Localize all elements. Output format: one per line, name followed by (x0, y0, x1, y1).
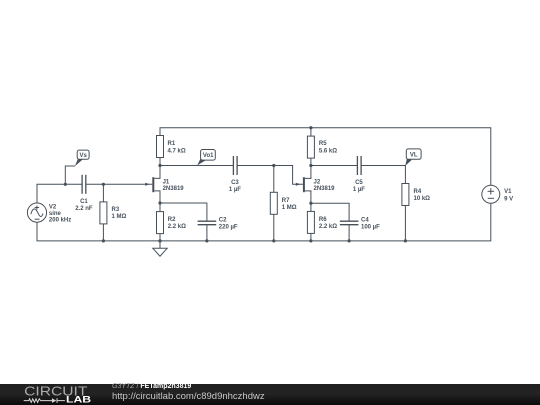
svg-text:C4: C4 (361, 218, 369, 224)
wire R3 top (102, 184, 104, 202)
capacitor C1 (82, 175, 86, 194)
node R3 top junction (102, 183, 105, 186)
bottom rail (37, 203, 491, 241)
wire R2 bottom (159, 234, 161, 241)
svg-text:2.2 kΩ: 2.2 kΩ (319, 224, 337, 230)
wire C2 bottom (206, 225, 208, 241)
svg-text:10 kΩ: 10 kΩ (414, 196, 431, 202)
svg-text:1 MΩ: 1 MΩ (282, 205, 297, 211)
svg-text:sine: sine (49, 211, 62, 217)
wire source2 to C4 (311, 203, 349, 221)
svg-text:Vs: Vs (80, 153, 88, 159)
svg-text:R5: R5 (319, 141, 327, 147)
labels (49, 141, 513, 231)
svg-text:200 kHz: 200 kHz (49, 217, 71, 223)
source V2 (27, 203, 46, 222)
wire R6 bottom (310, 233, 312, 241)
node R3 bottom rail junction (102, 239, 105, 242)
footer bar (0, 384, 540, 405)
resistor R1 (157, 136, 164, 158)
wire V2 top lead (37, 184, 82, 203)
svg-text:V1: V1 (504, 189, 512, 195)
svg-text:2.2 nF: 2.2 nF (75, 206, 93, 212)
svg-text:R2: R2 (168, 217, 176, 223)
node R2/ground rail junction (158, 239, 161, 242)
top rail (160, 128, 491, 186)
wire R5 bottom to J2 drain (310, 158, 312, 178)
resistor R2 (157, 212, 164, 234)
transistor J2 (296, 177, 311, 192)
CircuitLab logo (0, 384, 110, 405)
flag VL (405, 149, 421, 166)
svg-text:R6: R6 (319, 217, 327, 223)
wire drain2 node to C5 (311, 165, 358, 167)
capacitor C5 (357, 156, 361, 175)
wire drain1 node to C3 (160, 165, 233, 167)
node Vo1 junction (J1 drain) (158, 164, 161, 167)
resistor R5 (307, 136, 314, 158)
wire R7 top (273, 166, 275, 193)
svg-text:1 MΩ: 1 MΩ (112, 214, 127, 220)
svg-text:Vo1: Vo1 (203, 153, 214, 159)
svg-text:2N3819: 2N3819 (314, 186, 336, 192)
transistor J1 (145, 177, 160, 192)
node Vs junction (V2/C1) (64, 183, 67, 186)
wire C4 bottom (348, 225, 350, 241)
wire J2 source to R6 (310, 191, 312, 211)
svg-text:2N3819: 2N3819 (163, 186, 185, 192)
wire C3 to J2 gate (237, 166, 303, 185)
svg-text:J2: J2 (314, 179, 321, 185)
wire R4 bottom (404, 206, 406, 241)
svg-text:R3: R3 (112, 207, 120, 213)
svg-text:V2: V2 (49, 204, 57, 210)
wire R1 bottom to J1 drain (159, 158, 161, 179)
svg-text:1 µF: 1 µF (353, 187, 365, 193)
svg-text:C5: C5 (355, 180, 363, 186)
resistor R6 (307, 211, 314, 233)
node R7 top junction (272, 164, 275, 167)
wire R5 top (310, 128, 312, 136)
capacitor C3 (233, 156, 237, 175)
flag Vs (75, 150, 89, 166)
wire R7 bottom (273, 214, 275, 241)
capacitor C2 (198, 221, 217, 225)
node C2 bottom rail junction (205, 239, 208, 242)
wire J1 source to R2 (159, 191, 161, 212)
node J2 drain junction (309, 164, 312, 167)
flag Vo1 (197, 150, 215, 166)
resistor R4 (402, 184, 409, 206)
svg-text:R1: R1 (168, 141, 176, 147)
svg-text:C2: C2 (219, 218, 227, 224)
svg-text:1 µF: 1 µF (229, 187, 241, 193)
source V1 (482, 185, 500, 203)
wire source1 to C2 (160, 203, 207, 221)
svg-text:9 V: 9 V (504, 196, 513, 202)
wire C5 to VL corner and R4 (361, 166, 405, 184)
svg-text:5.6 kΩ: 5.6 kΩ (319, 148, 337, 154)
svg-text:100 µF: 100 µF (361, 225, 380, 231)
svg-text:LAB: LAB (66, 395, 91, 405)
wire Vs tap (65, 166, 75, 184)
node R6 bottom rail junction (309, 239, 312, 242)
svg-text:R4: R4 (414, 189, 422, 195)
svg-text:VL: VL (410, 153, 418, 159)
ground (153, 241, 167, 256)
node J2 source junction (309, 202, 312, 205)
svg-text:C1: C1 (80, 199, 88, 205)
svg-text:4.7 kΩ: 4.7 kΩ (168, 148, 186, 154)
capacitor C4 (340, 221, 359, 225)
resistor R7 (270, 192, 277, 214)
resistor R3 (100, 202, 107, 224)
svg-text:2.2 kΩ: 2.2 kΩ (168, 224, 186, 230)
node R4 bottom rail junction (404, 239, 407, 242)
wire R3 bottom (102, 224, 104, 241)
node J1 source junction (158, 201, 161, 204)
svg-text:220 µF: 220 µF (219, 225, 238, 231)
svg-text:R7: R7 (282, 198, 290, 204)
node R5 top rail junction (309, 126, 312, 129)
svg-text:C3: C3 (231, 180, 239, 186)
node C4 bottom rail junction (348, 239, 351, 242)
svg-text:J1: J1 (163, 179, 170, 185)
node R7 bottom rail junction (272, 239, 275, 242)
wire C1 to J1 gate (86, 183, 153, 185)
